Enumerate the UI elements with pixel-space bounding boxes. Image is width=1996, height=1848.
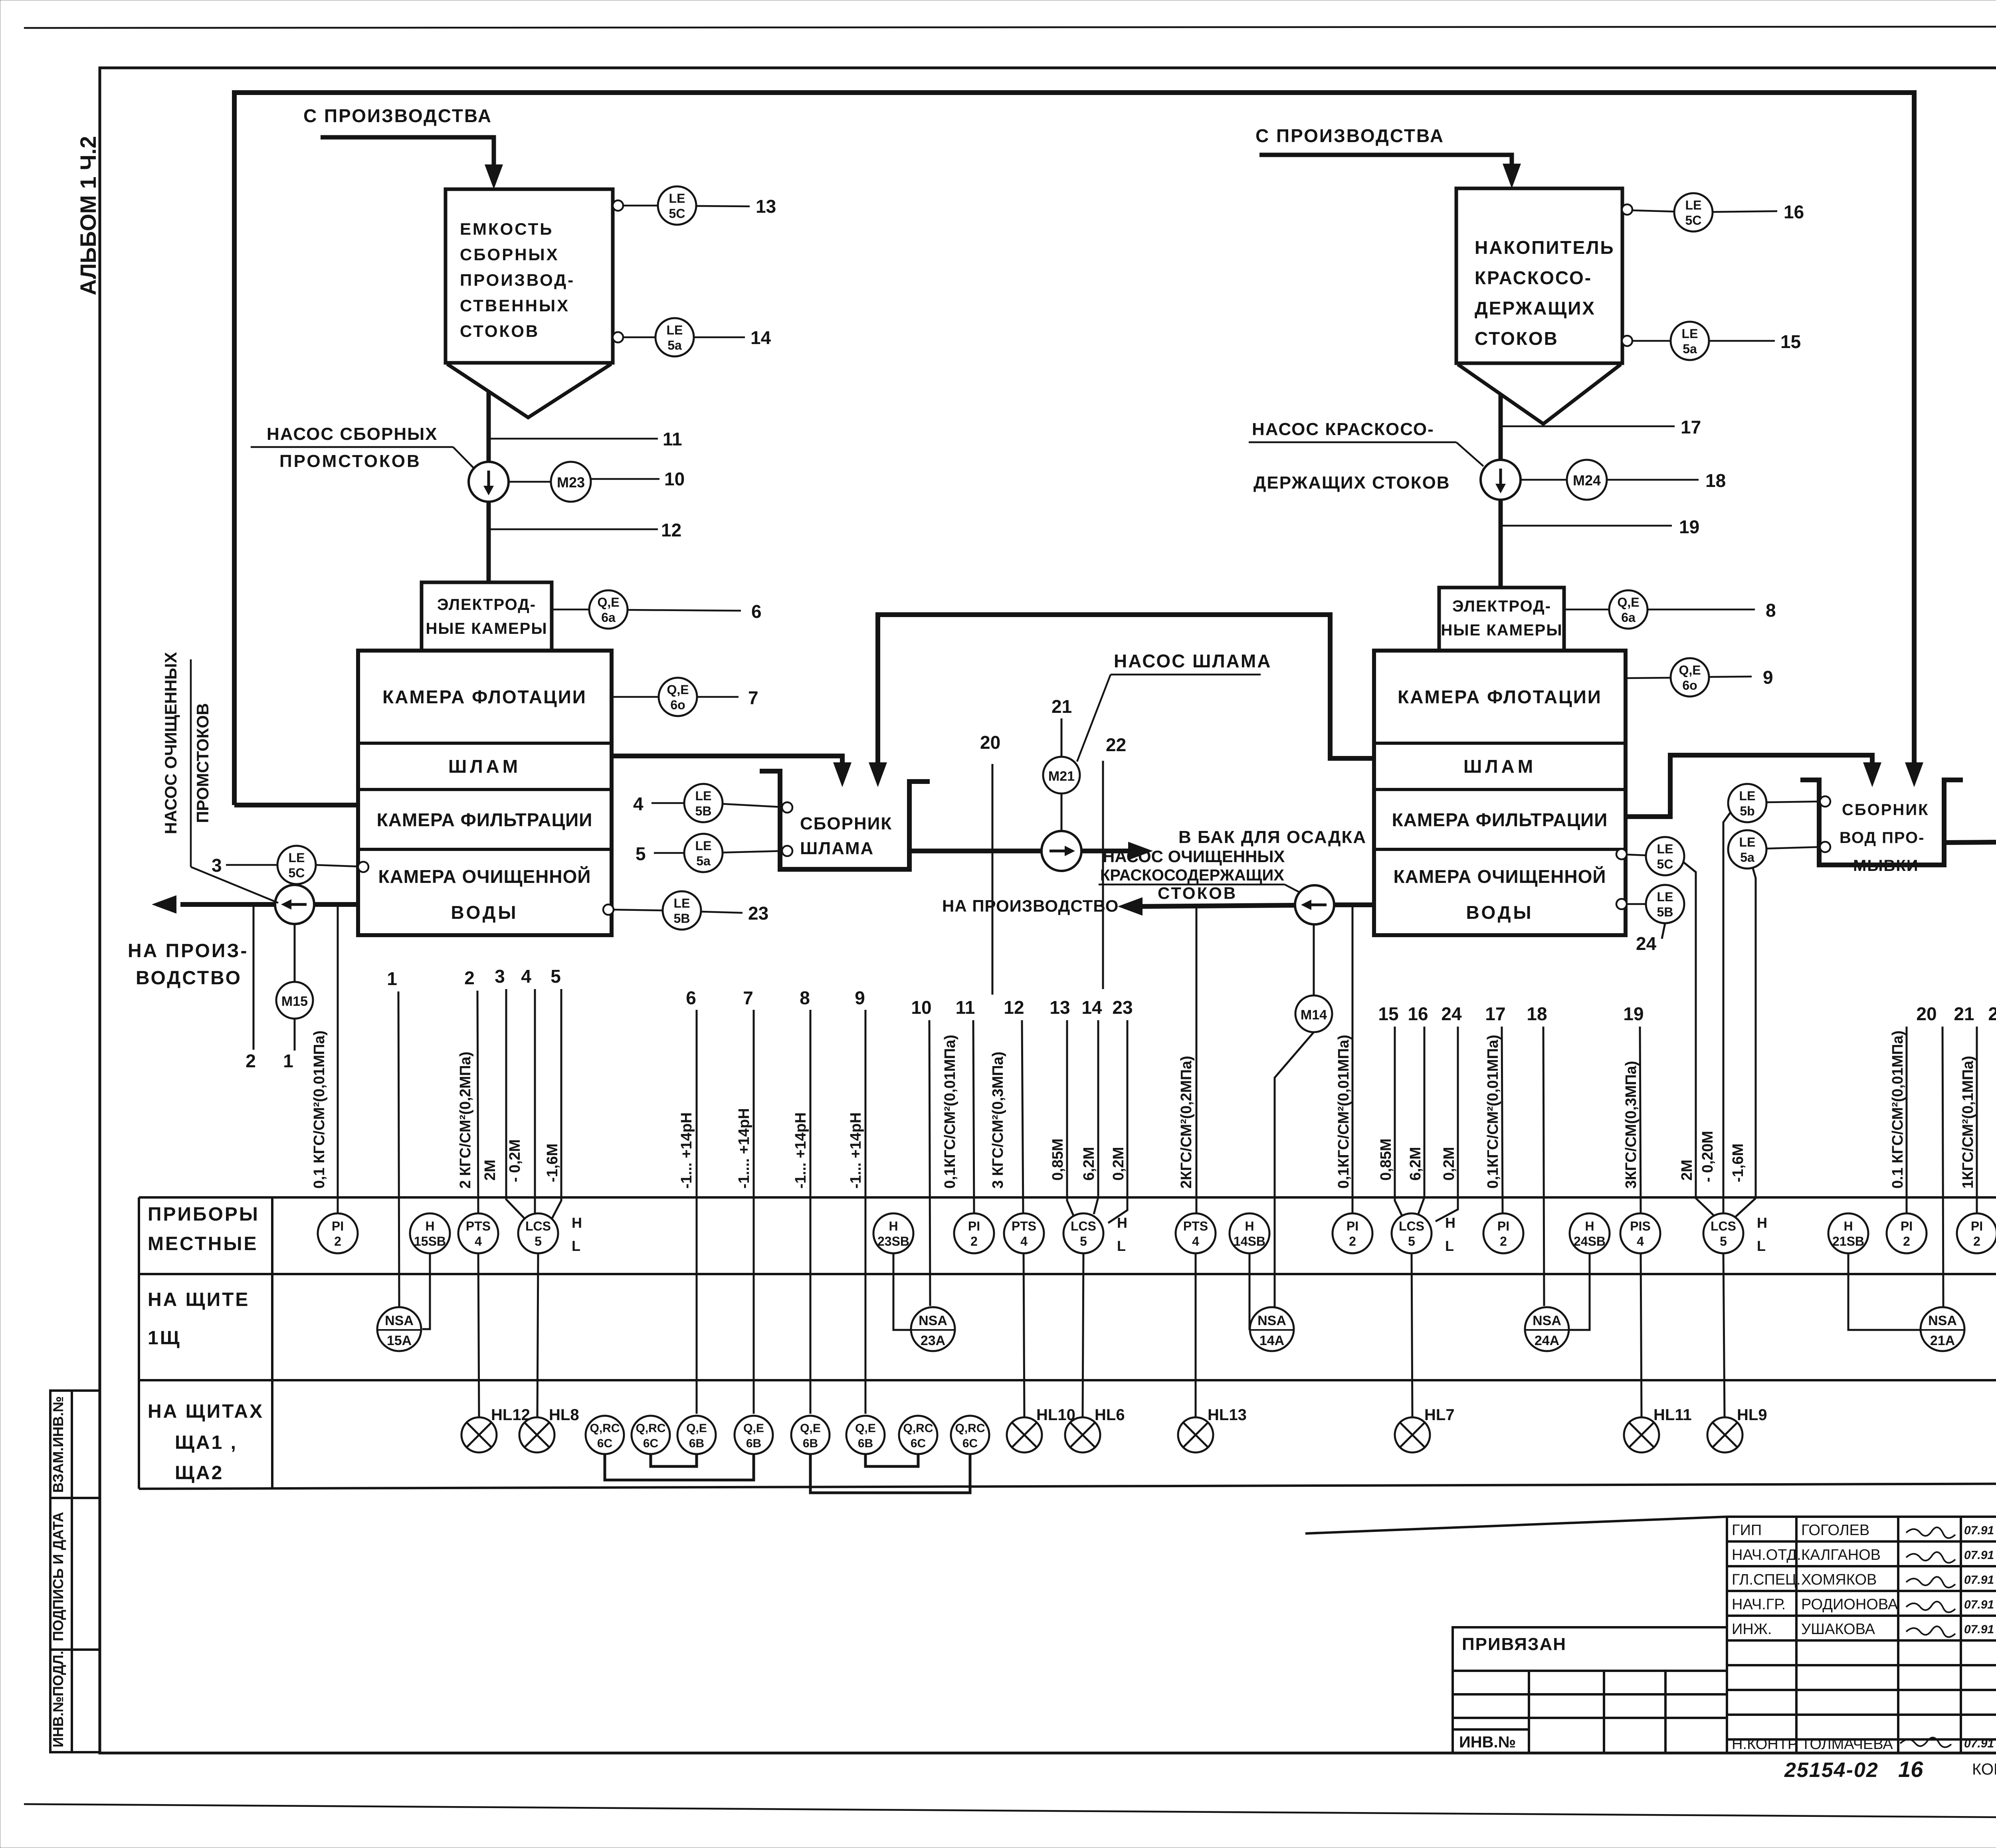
svg-text:6о: 6о	[670, 698, 685, 712]
svg-text:М24: М24	[1573, 472, 1601, 489]
svg-text:15SВ: 15SВ	[414, 1234, 446, 1248]
svg-text:-1... +14рН: -1... +14рН	[848, 1112, 864, 1189]
svg-text:16: 16	[1408, 1003, 1428, 1024]
svg-text:PI: PI	[332, 1219, 344, 1233]
svg-text:10: 10	[664, 469, 685, 489]
svg-text:ЕМКОСТЬ: ЕМКОСТЬ	[460, 220, 553, 238]
svg-text:-1... +14рН: -1... +14рН	[678, 1112, 695, 1189]
svg-text:HL11: HL11	[1653, 1406, 1692, 1424]
svg-text:КАМЕРА ОЧИЩЕННОЙ: КАМЕРА ОЧИЩЕННОЙ	[1394, 866, 1606, 887]
svg-text:2 КГС/СМ²(0,2МПа): 2 КГС/СМ²(0,2МПа)	[457, 1052, 474, 1189]
svg-text:4: 4	[1637, 1234, 1644, 1248]
svg-text:11: 11	[956, 997, 975, 1018]
svg-text:Н: Н	[1844, 1219, 1853, 1233]
svg-text:СТОКОВ: СТОКОВ	[1475, 328, 1558, 349]
svg-text:5C: 5C	[289, 866, 305, 880]
svg-text:24А: 24А	[1535, 1333, 1559, 1348]
svg-text:НА ПРОИЗ-: НА ПРОИЗ-	[128, 940, 248, 962]
svg-text:ШЛАМ: ШЛАМ	[1463, 756, 1536, 777]
svg-text:11: 11	[663, 429, 682, 449]
svg-text:СБОРНИК: СБОРНИК	[800, 814, 892, 833]
svg-text:КОПИРОВАЛ: Несмеянова, Зис: КОПИРОВАЛ: Несмеянова, Зис	[1972, 1761, 1996, 1778]
svg-text:16: 16	[1898, 1757, 1923, 1782]
svg-text:17: 17	[1681, 417, 1701, 437]
svg-text:24SВ: 24SВ	[1574, 1234, 1606, 1248]
svg-text:5В: 5В	[1657, 905, 1673, 919]
svg-text:Q,RС: Q,RС	[590, 1422, 620, 1435]
svg-text:21: 21	[1051, 696, 1072, 717]
svg-text:14SВ: 14SВ	[1234, 1234, 1265, 1248]
svg-text:НАСОС ОЧИЩЕННЫХ: НАСОС ОЧИЩЕННЫХ	[161, 652, 180, 834]
svg-text:С ПРОИЗВОДСТВА: С ПРОИЗВОДСТВА	[1255, 125, 1444, 146]
svg-text:24: 24	[1636, 933, 1657, 954]
svg-text:С ПРОИЗВОДСТВА: С ПРОИЗВОДСТВА	[303, 105, 492, 126]
svg-text:3: 3	[212, 855, 222, 876]
svg-text:07.91: 07.91	[1964, 1524, 1994, 1537]
svg-text:ПРИВЯЗАН: ПРИВЯЗАН	[1462, 1634, 1566, 1654]
svg-text:NSА: NSА	[1257, 1313, 1286, 1328]
svg-text:ВЗАМ.ИНВ.№: ВЗАМ.ИНВ.№	[50, 1396, 66, 1493]
svg-text:6,2М: 6,2М	[1407, 1147, 1424, 1181]
svg-text:5а: 5а	[667, 338, 682, 352]
svg-text:HL7: HL7	[1424, 1406, 1455, 1424]
svg-text:LE: LE	[695, 839, 712, 853]
svg-text:PI: PI	[1971, 1219, 1983, 1233]
svg-text:4: 4	[1020, 1234, 1028, 1248]
svg-text:LE: LE	[1739, 789, 1756, 803]
svg-text:ДЕРЖАЩИХ СТОКОВ: ДЕРЖАЩИХ СТОКОВ	[1253, 473, 1450, 493]
svg-text:PТS: PТS	[1012, 1219, 1036, 1233]
svg-text:19: 19	[1679, 516, 1699, 537]
svg-text:СБОРНЫХ: СБОРНЫХ	[460, 245, 559, 264]
svg-text:ПОДПИСЬ И ДАТА: ПОДПИСЬ И ДАТА	[50, 1512, 66, 1641]
svg-text:КАМЕРА ОЧИЩЕННОЙ: КАМЕРА ОЧИЩЕННОЙ	[378, 866, 591, 887]
svg-text:Q,E: Q,E	[1617, 595, 1639, 609]
svg-text:6В: 6В	[689, 1437, 704, 1450]
svg-text:Q,E: Q,E	[667, 683, 689, 697]
svg-text:8: 8	[1766, 600, 1776, 621]
svg-text:NSА: NSА	[919, 1313, 947, 1328]
svg-text:23SВ: 23SВ	[877, 1234, 909, 1248]
svg-text:НА ПРОИЗВОДСТВО: НА ПРОИЗВОДСТВО	[942, 896, 1119, 915]
svg-text:5C: 5C	[1657, 857, 1673, 871]
svg-text:Н: Н	[572, 1215, 582, 1231]
svg-text:4: 4	[521, 966, 531, 987]
svg-text:ПРОИЗВОД-: ПРОИЗВОД-	[460, 271, 575, 289]
svg-text:LСS: LСS	[525, 1219, 551, 1233]
svg-text:L: L	[1757, 1238, 1766, 1254]
svg-text:LСS: LСS	[1399, 1219, 1424, 1233]
svg-text:1: 1	[283, 1051, 293, 1071]
svg-text:НАСОС КРАСКОСО-: НАСОС КРАСКОСО-	[1252, 419, 1434, 439]
svg-text:15: 15	[1378, 1003, 1398, 1024]
svg-text:HL10: HL10	[1036, 1406, 1075, 1424]
svg-text:ЩА2: ЩА2	[175, 1462, 224, 1484]
svg-text:СТВЕННЫХ: СТВЕННЫХ	[460, 296, 570, 315]
svg-text:6о: 6о	[1682, 678, 1697, 693]
svg-text:2М: 2М	[1679, 1159, 1695, 1181]
svg-text:LE: LE	[1739, 835, 1756, 849]
svg-text:0,85М: 0,85М	[1378, 1138, 1394, 1181]
svg-text:В БАК ДЛЯ ОСАДКА: В БАК ДЛЯ ОСАДКА	[1178, 827, 1366, 847]
svg-text:21SВ: 21SВ	[1832, 1234, 1864, 1248]
svg-text:НЫЕ КАМЕРЫ: НЫЕ КАМЕРЫ	[1441, 621, 1563, 639]
svg-text:NSА: NSА	[385, 1313, 414, 1328]
svg-text:6С: 6С	[597, 1437, 612, 1450]
svg-text:КАМЕРА ФЛОТАЦИИ: КАМЕРА ФЛОТАЦИИ	[382, 687, 587, 707]
svg-text:2КГС/СМ²(0,2МПа): 2КГС/СМ²(0,2МПа)	[1178, 1056, 1195, 1189]
svg-text:2: 2	[1903, 1234, 1910, 1248]
svg-text:24: 24	[1441, 1003, 1462, 1024]
svg-text:Н: Н	[1445, 1215, 1455, 1231]
svg-text:PI: PI	[1497, 1219, 1509, 1233]
svg-text:0.1 КГС/СМ²(0,01МПа): 0.1 КГС/СМ²(0,01МПа)	[1889, 1031, 1906, 1189]
svg-text:СТОКОВ: СТОКОВ	[1158, 884, 1237, 902]
svg-text:0,85М: 0,85М	[1049, 1138, 1066, 1181]
svg-text:0,1КГС/СМ²(0,01МПа): 0,1КГС/СМ²(0,01МПа)	[942, 1035, 958, 1189]
svg-text:6С: 6С	[911, 1437, 926, 1450]
svg-text:10: 10	[911, 997, 931, 1018]
svg-text:23А: 23А	[921, 1333, 945, 1348]
svg-text:ПРОМСТОКОВ: ПРОМСТОКОВ	[193, 703, 212, 823]
svg-text:5: 5	[1720, 1234, 1727, 1248]
svg-text:КАМЕРА ФИЛЬТРАЦИИ: КАМЕРА ФИЛЬТРАЦИИ	[1392, 809, 1608, 830]
svg-text:18: 18	[1705, 470, 1726, 491]
svg-text:HL9: HL9	[1737, 1406, 1767, 1424]
svg-text:LE: LE	[669, 191, 685, 206]
svg-text:1КГС/СМ²(0,1МПа): 1КГС/СМ²(0,1МПа)	[1960, 1056, 1976, 1189]
svg-text:Q,E: Q,E	[1679, 663, 1701, 677]
svg-text:ГЛ.СПЕЦ.: ГЛ.СПЕЦ.	[1732, 1571, 1801, 1588]
svg-text:5C: 5C	[669, 206, 685, 221]
svg-text:20: 20	[980, 732, 1000, 753]
svg-text:L: L	[1445, 1238, 1454, 1254]
svg-text:5а: 5а	[696, 854, 711, 868]
svg-text:6,2М: 6,2М	[1081, 1147, 1097, 1181]
svg-text:6В: 6В	[858, 1437, 873, 1450]
svg-text:ПРИБОРЫ: ПРИБОРЫ	[148, 1204, 259, 1225]
svg-text:LE: LE	[674, 896, 690, 910]
svg-text:ВОДСТВО: ВОДСТВО	[136, 968, 242, 989]
svg-text:LE: LE	[695, 789, 712, 803]
svg-text:1Щ: 1Щ	[148, 1328, 181, 1349]
svg-text:5а: 5а	[1740, 850, 1754, 865]
svg-text:7: 7	[743, 987, 753, 1008]
svg-text:07.91: 07.91	[1964, 1573, 1994, 1587]
svg-text:-1... +14рН: -1... +14рН	[792, 1112, 809, 1189]
svg-text:М23: М23	[557, 474, 585, 491]
svg-text:LE: LE	[1657, 890, 1673, 904]
svg-text:Q,RС: Q,RС	[955, 1422, 985, 1435]
svg-text:LE: LE	[667, 323, 683, 337]
svg-text:07.91: 07.91	[1964, 1737, 1994, 1750]
svg-text:ШЛАМ: ШЛАМ	[448, 756, 521, 777]
svg-text:LE: LE	[1682, 326, 1698, 341]
svg-text:6С: 6С	[643, 1437, 658, 1450]
svg-text:PI: PI	[968, 1219, 980, 1233]
svg-text:МЕСТНЫЕ: МЕСТНЫЕ	[148, 1233, 258, 1254]
svg-text:-1.... +14рН: -1.... +14рН	[736, 1108, 752, 1189]
svg-text:5а: 5а	[1683, 342, 1697, 356]
svg-text:Q,E: Q,E	[855, 1422, 876, 1435]
svg-text:Q,E: Q,E	[743, 1422, 764, 1435]
svg-text:КАМЕРА ФИЛЬТРАЦИИ: КАМЕРА ФИЛЬТРАЦИИ	[377, 809, 593, 830]
svg-text:0,1 КГС/СМ²(0,01МПа): 0,1 КГС/СМ²(0,01МПа)	[311, 1031, 328, 1189]
svg-text:РОДИОНОВА: РОДИОНОВА	[1801, 1596, 1898, 1613]
svg-text:НАЧ.ОТД.: НАЧ.ОТД.	[1732, 1547, 1801, 1563]
svg-text:М15: М15	[281, 994, 308, 1009]
svg-text:3КГС/СМ(0,3МПа): 3КГС/СМ(0,3МПа)	[1623, 1061, 1640, 1189]
svg-text:5: 5	[550, 966, 561, 987]
svg-text:15: 15	[1780, 331, 1801, 352]
svg-text:-1,6М: -1,6М	[544, 1144, 561, 1182]
svg-text:ИНВ.№ПОДЛ.: ИНВ.№ПОДЛ.	[50, 1651, 66, 1747]
svg-text:Q,E: Q,E	[800, 1422, 821, 1435]
svg-text:4: 4	[633, 793, 644, 814]
svg-text:2: 2	[464, 968, 475, 988]
svg-text:ШЛАМА: ШЛАМА	[800, 839, 874, 858]
svg-text:14: 14	[1081, 997, 1102, 1018]
svg-text:НАСОС ОЧИЩЕННЫХ: НАСОС ОЧИЩЕННЫХ	[1103, 847, 1285, 866]
svg-text:9: 9	[1763, 667, 1773, 688]
svg-text:ВОДЫ: ВОДЫ	[1466, 902, 1533, 923]
svg-text:2: 2	[970, 1234, 978, 1248]
svg-text:5В: 5В	[695, 804, 712, 818]
svg-text:КРАСКОСОДЕРЖАЩИХ: КРАСКОСОДЕРЖАЩИХ	[1100, 867, 1284, 884]
svg-text:HL12: HL12	[491, 1406, 530, 1424]
svg-text:PI: PI	[1901, 1219, 1913, 1233]
svg-text:25154-02: 25154-02	[1784, 1759, 1879, 1782]
svg-text:07.91: 07.91	[1964, 1598, 1994, 1611]
svg-text:07.91: 07.91	[1964, 1623, 1994, 1636]
svg-text:LСS: LСS	[1071, 1219, 1096, 1233]
svg-text:0,1КГС/СМ²(0,01МПа): 0,1КГС/СМ²(0,01МПа)	[1485, 1035, 1501, 1189]
svg-text:6В: 6В	[803, 1437, 818, 1450]
svg-text:КАЛГАНОВ: КАЛГАНОВ	[1801, 1547, 1881, 1563]
svg-text:21: 21	[1954, 1003, 1974, 1024]
svg-text:21А: 21А	[1930, 1333, 1955, 1348]
svg-text:НЫЕ КАМЕРЫ: НЫЕ КАМЕРЫ	[426, 620, 548, 637]
svg-text:Q,E: Q,E	[686, 1422, 707, 1435]
svg-text:Н: Н	[1245, 1219, 1254, 1233]
svg-text:16: 16	[1784, 202, 1804, 222]
svg-text:LСS: LСS	[1711, 1219, 1736, 1233]
svg-text:5: 5	[535, 1234, 542, 1248]
svg-text:ИНВ.№: ИНВ.№	[1459, 1733, 1516, 1751]
svg-text:5: 5	[1408, 1234, 1415, 1248]
svg-text:14: 14	[750, 327, 771, 348]
svg-text:НАСОС СБОРНЫХ: НАСОС СБОРНЫХ	[267, 424, 438, 444]
svg-text:5В: 5В	[674, 911, 690, 926]
svg-text:4: 4	[475, 1234, 482, 1248]
svg-text:3 КГС/СМ²(0,3МПа): 3 КГС/СМ²(0,3МПа)	[990, 1052, 1006, 1189]
svg-text:2: 2	[1349, 1234, 1356, 1248]
svg-text:АЛЬБОМ 1 Ч.2: АЛЬБОМ 1 Ч.2	[75, 136, 101, 295]
svg-text:Н: Н	[1757, 1215, 1767, 1231]
svg-text:СБОРНИК: СБОРНИК	[1842, 801, 1929, 819]
svg-text:LE: LE	[1685, 198, 1702, 212]
svg-text:20: 20	[1916, 1003, 1937, 1024]
svg-text:0,2М: 0,2М	[1110, 1147, 1127, 1181]
svg-text:Н.КОНТР.: Н.КОНТР.	[1732, 1736, 1799, 1753]
svg-text:2: 2	[1500, 1234, 1507, 1248]
svg-text:8: 8	[800, 987, 810, 1008]
svg-text:2: 2	[1973, 1234, 1980, 1248]
svg-text:6: 6	[686, 987, 696, 1008]
svg-text:ВОД ПРО-: ВОД ПРО-	[1840, 829, 1925, 847]
svg-text:ХОМЯКОВ: ХОМЯКОВ	[1801, 1571, 1877, 1588]
svg-text:НАЧ.ГР.: НАЧ.ГР.	[1732, 1596, 1786, 1613]
svg-text:Q,RС: Q,RС	[636, 1422, 666, 1435]
svg-text:4: 4	[1192, 1234, 1199, 1248]
svg-text:12: 12	[661, 520, 681, 540]
svg-text:23: 23	[748, 903, 768, 924]
svg-text:ДЕРЖАЩИХ: ДЕРЖАЩИХ	[1475, 298, 1596, 319]
svg-text:ТОЛМАЧЕВА: ТОЛМАЧЕВА	[1801, 1736, 1893, 1753]
svg-text:9: 9	[855, 987, 865, 1008]
svg-text:НА ЩИТЕ: НА ЩИТЕ	[148, 1289, 249, 1310]
svg-text:15А: 15А	[387, 1333, 412, 1348]
svg-text:NSА: NSА	[1928, 1313, 1957, 1328]
svg-text:2М: 2М	[482, 1159, 499, 1181]
svg-text:LE: LE	[1657, 842, 1673, 856]
svg-text:PТS: PТS	[466, 1219, 491, 1233]
svg-text:Q,RС: Q,RС	[903, 1422, 933, 1435]
svg-text:12: 12	[1004, 997, 1024, 1018]
svg-text:13: 13	[1049, 997, 1070, 1018]
svg-text:НА ЩИТАХ: НА ЩИТАХ	[148, 1401, 264, 1422]
svg-text:НАСОС ШЛАМА: НАСОС ШЛАМА	[1114, 651, 1271, 671]
svg-text:22: 22	[1988, 1003, 1996, 1024]
svg-text:3: 3	[495, 966, 505, 987]
svg-text:5C: 5C	[1685, 213, 1702, 228]
svg-text:PТS: PТS	[1183, 1219, 1208, 1233]
svg-text:- 0,2М: - 0,2М	[507, 1139, 523, 1182]
svg-text:М21: М21	[1048, 769, 1075, 784]
svg-text:5: 5	[1080, 1234, 1087, 1248]
svg-text:6В: 6В	[746, 1437, 761, 1450]
svg-text:ВОДЫ: ВОДЫ	[451, 902, 518, 923]
svg-text:5b: 5b	[1740, 804, 1754, 818]
svg-text:6а: 6а	[601, 610, 616, 625]
svg-text:2: 2	[334, 1234, 341, 1248]
svg-text:HL13: HL13	[1208, 1406, 1247, 1424]
svg-text:ГИП: ГИП	[1732, 1522, 1762, 1539]
svg-text:23: 23	[1112, 997, 1133, 1018]
svg-text:6а: 6а	[1621, 610, 1636, 625]
svg-text:МЫВКИ: МЫВКИ	[1853, 857, 1919, 875]
svg-text:14А: 14А	[1259, 1333, 1284, 1348]
svg-text:-1,6М: -1,6М	[1730, 1144, 1746, 1182]
svg-text:2: 2	[246, 1051, 256, 1071]
svg-text:6: 6	[751, 601, 762, 622]
svg-text:Н: Н	[1585, 1219, 1594, 1233]
svg-text:L: L	[572, 1238, 580, 1254]
svg-text:6С: 6С	[962, 1437, 978, 1450]
svg-text:HL8: HL8	[549, 1406, 579, 1424]
svg-text:7: 7	[748, 687, 758, 708]
svg-text:ИНЖ.: ИНЖ.	[1732, 1621, 1772, 1638]
svg-text:1: 1	[387, 968, 397, 989]
svg-text:КАМЕРА ФЛОТАЦИИ: КАМЕРА ФЛОТАЦИИ	[1398, 687, 1602, 707]
svg-text:17: 17	[1485, 1003, 1505, 1024]
svg-text:HL6: HL6	[1095, 1406, 1125, 1424]
svg-text:PI: PI	[1347, 1219, 1358, 1233]
svg-text:КРАСКОСО-: КРАСКОСО-	[1475, 267, 1592, 288]
svg-text:ЭЛЕКТРОД-: ЭЛЕКТРОД-	[437, 596, 536, 613]
svg-text:NSА: NSА	[1533, 1313, 1561, 1328]
svg-text:Н: Н	[425, 1219, 434, 1233]
svg-text:5: 5	[636, 843, 646, 864]
svg-text:PIS: PIS	[1630, 1219, 1651, 1233]
svg-text:ЭЛЕКТРОД-: ЭЛЕКТРОД-	[1452, 598, 1551, 615]
svg-text:13: 13	[756, 196, 776, 217]
svg-text:Н: Н	[889, 1219, 898, 1233]
svg-text:18: 18	[1527, 1003, 1547, 1024]
svg-text:М14: М14	[1301, 1007, 1327, 1023]
svg-text:ГОГОЛЕВ: ГОГОЛЕВ	[1801, 1522, 1869, 1539]
svg-text:УШАКОВА: УШАКОВА	[1801, 1621, 1875, 1638]
svg-text:Н: Н	[1117, 1215, 1127, 1231]
svg-text:22: 22	[1106, 734, 1126, 755]
svg-text:0,1КГС/СМ²(0,01МПа): 0,1КГС/СМ²(0,01МПа)	[1335, 1035, 1352, 1189]
svg-text:07.91: 07.91	[1964, 1549, 1994, 1562]
svg-text:СТОКОВ: СТОКОВ	[460, 322, 539, 340]
svg-text:0,2М: 0,2М	[1441, 1147, 1457, 1181]
svg-text:ПРОМСТОКОВ: ПРОМСТОКОВ	[279, 451, 421, 471]
svg-text:Q,E: Q,E	[597, 595, 619, 609]
svg-text:L: L	[1117, 1238, 1126, 1254]
svg-text:19: 19	[1623, 1003, 1644, 1024]
svg-text:- 0,20М: - 0,20М	[1699, 1131, 1716, 1182]
svg-text:НАКОПИТЕЛЬ: НАКОПИТЕЛЬ	[1475, 237, 1615, 258]
svg-text:LE: LE	[289, 851, 305, 865]
svg-text:ЩА1 ,: ЩА1 ,	[175, 1432, 238, 1453]
